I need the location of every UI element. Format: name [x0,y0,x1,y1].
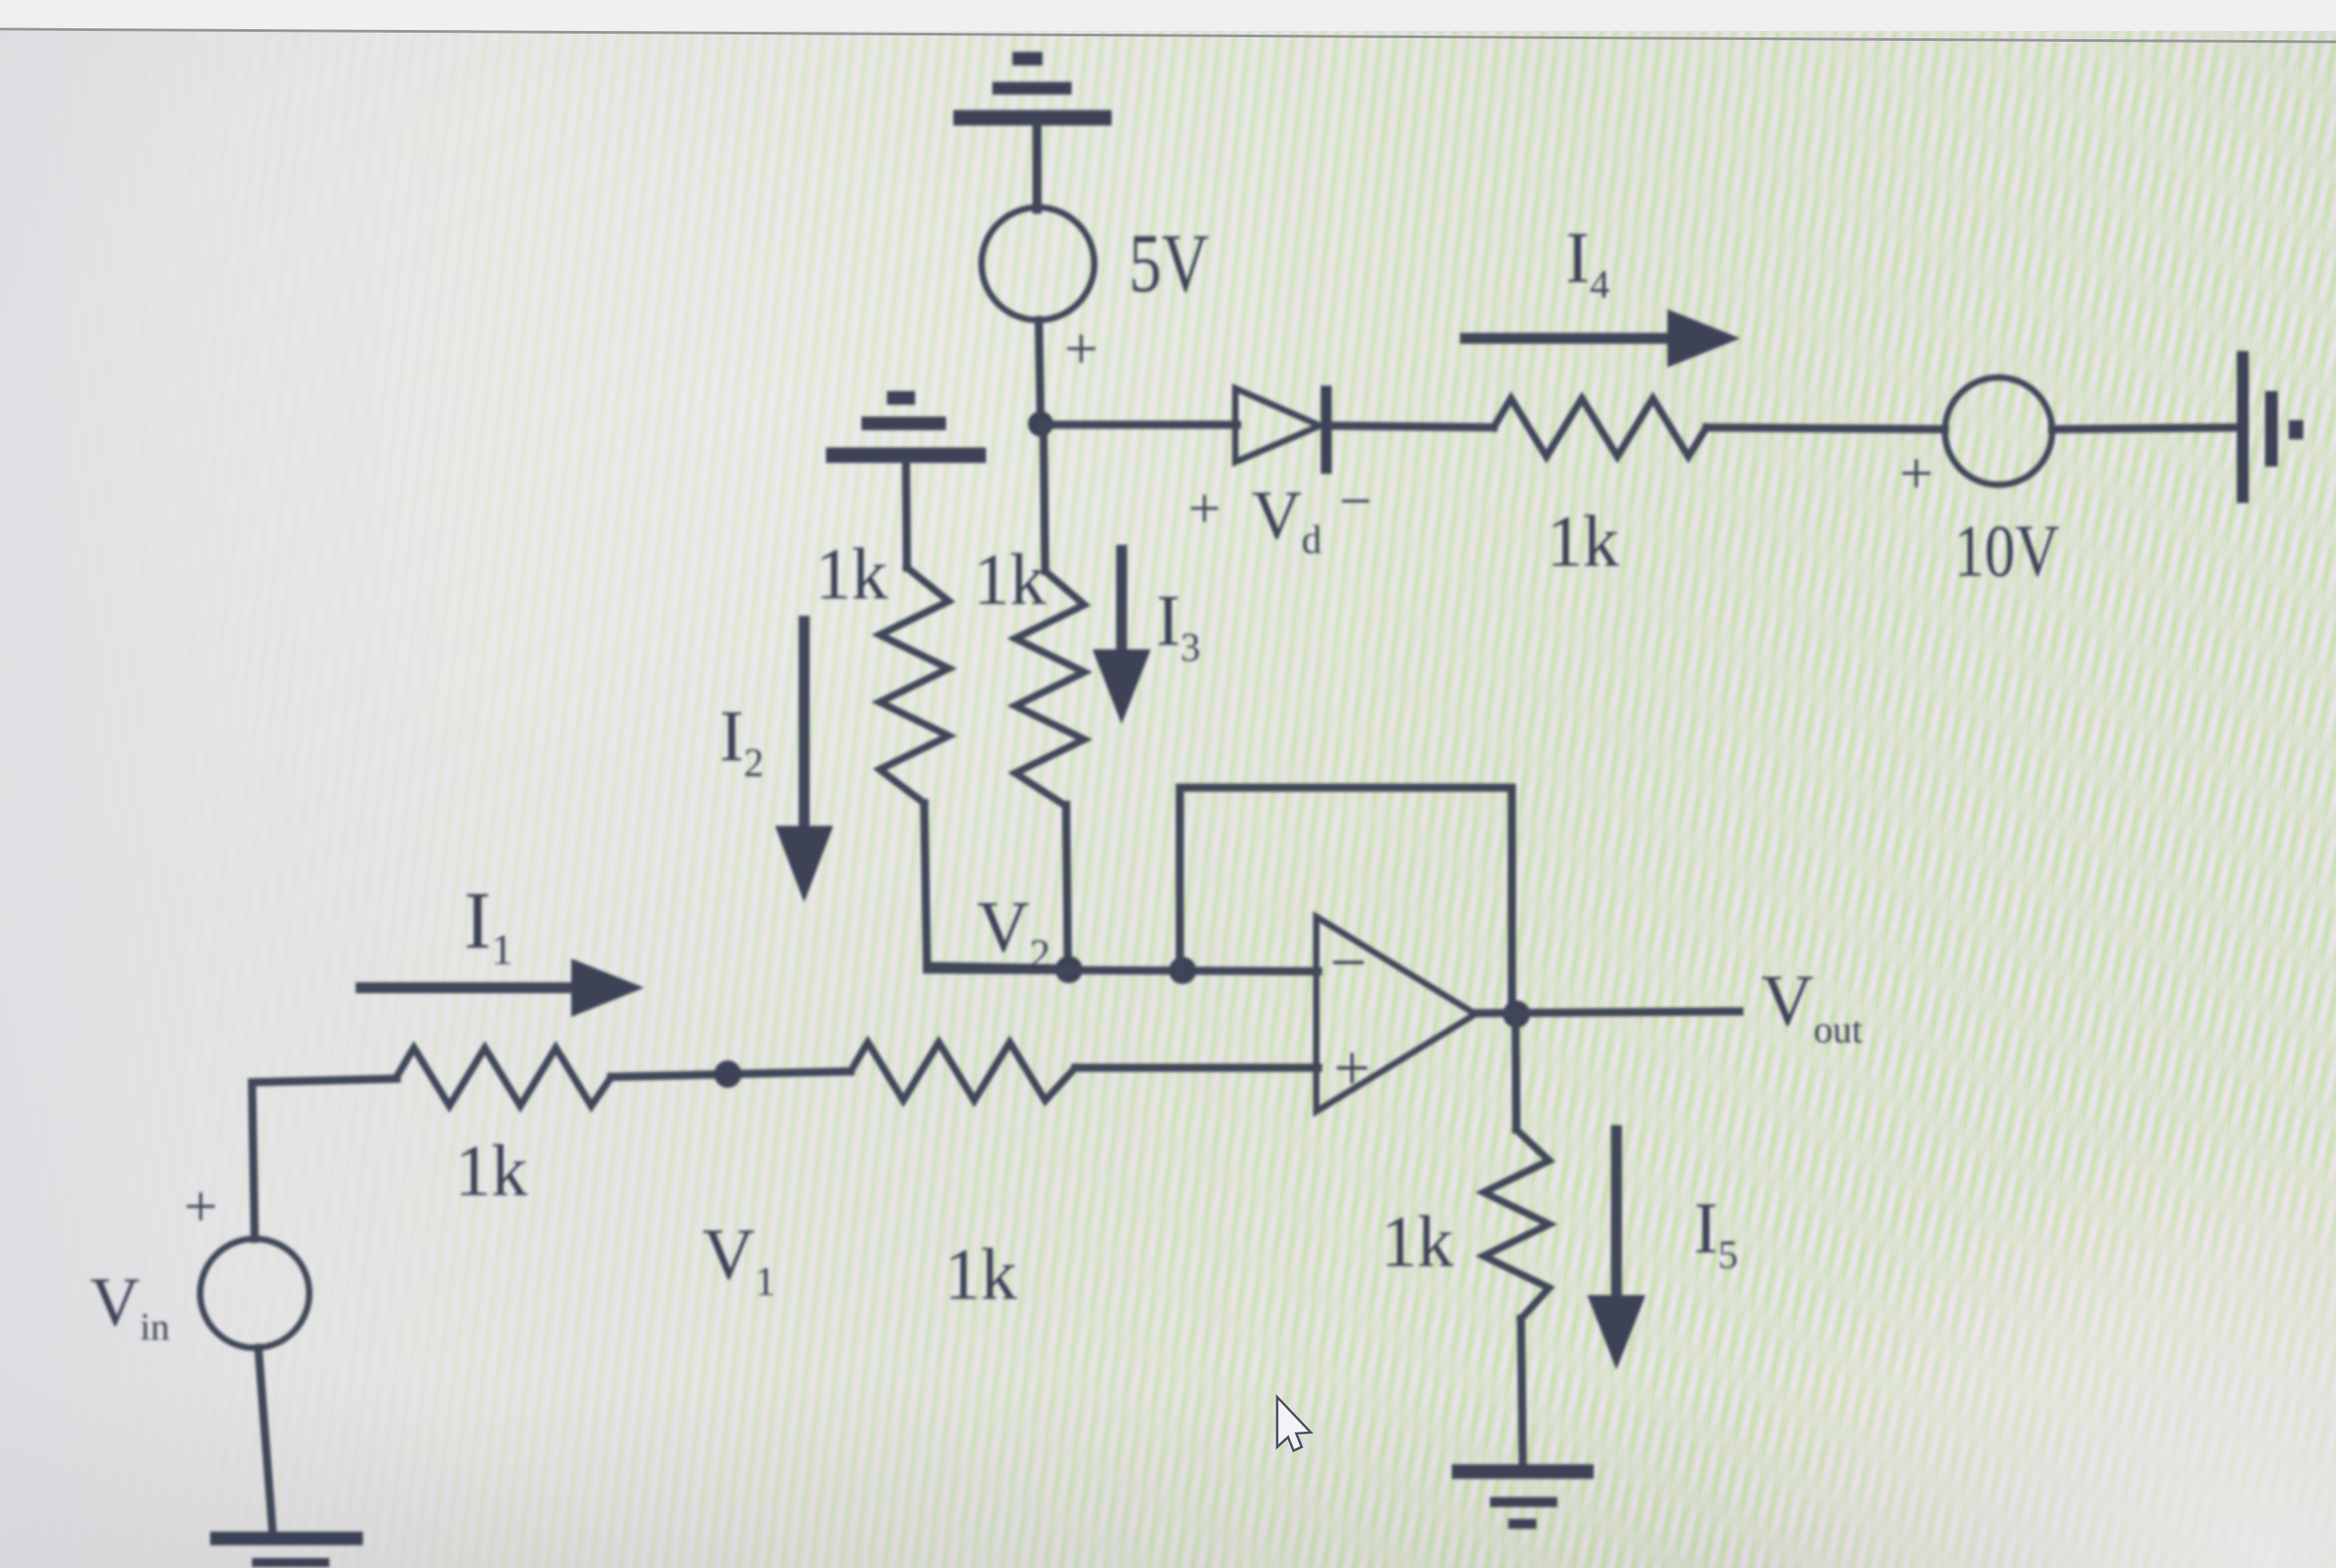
svg-text:V1: V1 [702,1215,776,1304]
wire R4 to 10V source [1707,427,1945,429]
wire R2 bottom to node V2 [924,803,1069,969]
voltage source 5V [982,207,1094,320]
svg-text:I4: I4 [1566,218,1610,307]
svg-text:Vout: Vout [1761,961,1863,1051]
svg-text:−: − [1339,468,1372,533]
svg-text:I2: I2 [720,697,764,785]
current arrow I4 [1465,309,1740,367]
wire R6 to bottom ground [1521,1319,1523,1466]
op-amp U1 [1316,917,1475,1111]
wire op-amp output [1475,1011,1739,1013]
wire Vin top to R1 [252,1079,397,1239]
current arrow I1 [361,959,644,1017]
svg-text:I3: I3 [1156,581,1201,669]
mouse cursor [1277,1397,1311,1451]
svg-text:+: + [184,1173,217,1240]
svg-text:−: − [1330,926,1367,999]
svg-text:10V: 10V [1954,509,2059,592]
ground (right, rotated) [2237,351,2303,503]
voltage source 10V [1945,377,2052,485]
wire V2 to op-amp minus input [927,970,1318,971]
current arrow I2 [775,621,833,902]
voltage source Vin [200,1239,309,1348]
ground (bottom, under R6) [1452,1464,1594,1529]
wire 5V to node A [1039,320,1041,424]
node V2 junction dot [1055,956,1082,983]
resistor R5 1k (horizontal, middle) [851,1042,1075,1101]
resistor R3 1k (vertical, right) [1015,571,1084,805]
resistor R2 1k (vertical, left) [880,568,949,803]
svg-text:1k: 1k [455,1131,528,1211]
svg-text:+: + [1064,316,1098,382]
resistor R6 1k (vertical, below output) [1484,1130,1549,1319]
node (feedback tap) [1169,957,1196,984]
wire 10V to right ground [2052,427,2240,429]
svg-text:I5: I5 [1694,1189,1738,1277]
svg-text:1k: 1k [1546,502,1619,582]
svg-text:1k: 1k [1381,1202,1454,1282]
wire node A down to R3 [1043,424,1045,571]
ground (above left 1k resistor) [826,391,986,568]
wire R1 to node V1 [611,1071,851,1077]
svg-text:1k: 1k [815,535,888,615]
current arrow I3 [1092,550,1151,724]
resistor R1 1k (horizontal, bottom left) [397,1048,611,1106]
svg-text:5V: 5V [1129,216,1209,309]
resistor R4 1k (horizontal, top right) [1494,398,1707,457]
svg-text:1k: 1k [973,540,1046,620]
diode D1 [1235,386,1332,474]
ground (top, above 5V source) [953,52,1112,209]
svg-text:Vd: Vd [1252,477,1322,562]
wire diode to resistor 1k (right) [1332,426,1494,427]
wire R5 to op-amp plus input [1075,1064,1318,1072]
svg-text:I1: I1 [464,876,513,974]
svg-text:V2: V2 [977,888,1051,977]
svg-text:1k: 1k [944,1235,1017,1315]
wire output node down to R6 [1515,1014,1516,1130]
svg-text:+: + [1334,1031,1371,1104]
wire node A to diode [1041,421,1237,429]
svg-text:Vin: Vin [90,1264,170,1349]
svg-text:+: + [1899,440,1933,507]
node V1 junction dot [714,1060,741,1088]
window top edge line [0,29,2336,42]
svg-text:+: + [1188,476,1221,540]
current arrow I5 [1587,1131,1646,1370]
feedback wire [1180,788,1512,1014]
wire R3 bottom to node V2 [1066,805,1068,969]
node A junction dot [1028,411,1053,437]
output node dot [1503,1000,1530,1028]
ground (bottom left, under Vin) [210,1532,363,1567]
wire Vin bottom to ground [258,1348,273,1535]
